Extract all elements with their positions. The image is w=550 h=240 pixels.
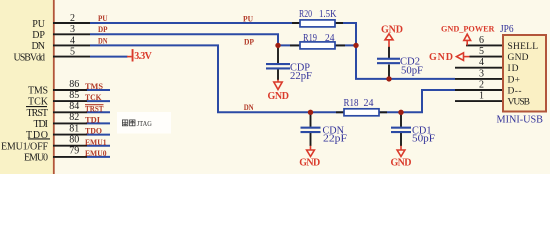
svg-text:DP: DP [32, 30, 45, 41]
svg-text:D+: D+ [508, 75, 521, 85]
svg-text:GND: GND [299, 157, 320, 168]
svg-text:1: 1 [479, 91, 484, 102]
svg-text:DP: DP [98, 25, 108, 34]
svg-text:3: 3 [70, 24, 75, 35]
svg-text:DN: DN [32, 41, 46, 52]
svg-text:TDO: TDO [85, 127, 102, 136]
svg-text:DN: DN [244, 103, 254, 112]
svg-text:DP: DP [244, 38, 254, 47]
svg-text:84: 84 [69, 101, 79, 112]
svg-text:ID: ID [508, 64, 519, 74]
svg-text:50pF: 50pF [401, 65, 423, 76]
svg-text:81: 81 [69, 123, 79, 134]
svg-text:24: 24 [364, 98, 374, 109]
svg-text:DN: DN [98, 36, 108, 45]
svg-text:3.3V: 3.3V [134, 51, 152, 62]
svg-text:GND: GND [268, 91, 290, 102]
svg-text:TCK: TCK [85, 93, 102, 102]
svg-text:2: 2 [70, 13, 75, 24]
svg-text:2: 2 [479, 80, 484, 91]
svg-text:4: 4 [479, 57, 484, 68]
svg-text:R18: R18 [344, 98, 359, 109]
svg-text:85: 85 [69, 90, 79, 101]
svg-text:5: 5 [479, 46, 484, 57]
svg-text:VUSB: VUSB [508, 98, 531, 108]
svg-text:GND: GND [391, 157, 412, 168]
svg-text:TDI: TDI [34, 119, 49, 130]
svg-text:82: 82 [69, 112, 79, 123]
svg-text:GND: GND [508, 53, 529, 63]
svg-text:1.5K: 1.5K [319, 9, 337, 20]
svg-text:TDI: TDI [85, 116, 100, 125]
svg-text:EMU0: EMU0 [24, 153, 48, 164]
svg-text:JP6: JP6 [500, 24, 514, 35]
svg-text:22pF: 22pF [323, 134, 348, 145]
svg-text:6: 6 [479, 35, 484, 46]
svg-text:MINI-USB: MINI-USB [497, 114, 544, 125]
svg-text:5: 5 [70, 47, 75, 58]
svg-text:TMS: TMS [85, 82, 104, 91]
svg-text:50pF: 50pF [412, 134, 435, 145]
svg-text:GND: GND [381, 24, 403, 35]
svg-text:PU: PU [98, 14, 108, 23]
svg-text:22pF: 22pF [290, 71, 312, 82]
svg-text:3: 3 [479, 68, 484, 79]
svg-text:GND: GND [429, 52, 453, 63]
svg-text:R19: R19 [303, 33, 317, 44]
svg-text:TDO: TDO [26, 130, 48, 141]
svg-text:R20: R20 [299, 9, 312, 20]
svg-text:SHELL: SHELL [508, 42, 539, 52]
svg-text:TRST: TRST [27, 108, 49, 119]
svg-text:79: 79 [69, 146, 79, 157]
svg-text:86: 86 [69, 79, 79, 90]
svg-text:80: 80 [69, 135, 79, 146]
svg-text:EMU1/OFF: EMU1/OFF [1, 141, 48, 152]
svg-text:PU: PU [32, 19, 46, 30]
svg-text:EMU0: EMU0 [85, 149, 107, 158]
svg-text:JTAG: JTAG [137, 119, 152, 128]
svg-text:TRST: TRST [85, 104, 104, 113]
svg-text:USBVdd: USBVdd [14, 52, 46, 63]
svg-text:D--: D-- [508, 86, 522, 96]
svg-text:PU: PU [243, 14, 253, 23]
svg-text:GND_POWER: GND_POWER [441, 23, 495, 33]
svg-text:24: 24 [325, 33, 335, 44]
svg-text:EMU1: EMU1 [85, 138, 107, 147]
svg-text:TMS: TMS [28, 86, 48, 97]
svg-text:4: 4 [70, 35, 75, 46]
